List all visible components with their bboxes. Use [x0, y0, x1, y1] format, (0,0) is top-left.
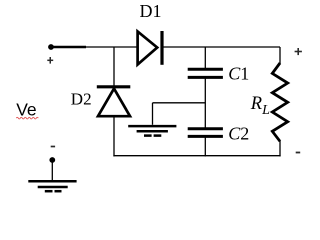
- wire capacitor branch top: [204, 47, 206, 68]
- wire bottom rail: [113, 155, 280, 157]
- wire D2 branch lower: [113, 116, 115, 156]
- capacitor C2 bottom plate: [188, 135, 223, 138]
- ground (input, bottom-left): [28, 181, 76, 191]
- svg-text:Ve: Ve: [16, 100, 36, 120]
- svg-text:D1: D1: [140, 1, 162, 21]
- diode D2 triangle: [98, 89, 130, 117]
- capacitor C1 top plate: [188, 68, 223, 71]
- node input + terminal dot: [48, 44, 54, 50]
- capacitor C1 bottom plate: [188, 76, 223, 79]
- wire top rail left (to D1 anode): [85, 46, 138, 48]
- node input - terminal dot: [49, 157, 55, 163]
- wire top rail right: [164, 46, 281, 48]
- wire right branch top: [279, 47, 281, 64]
- wire capacitor branch bottom: [204, 138, 206, 157]
- svg-text:C1: C1: [228, 63, 249, 83]
- wire capacitor branch middle: [204, 79, 206, 128]
- wire right branch bottom: [279, 141, 281, 156]
- capacitor C2 top plate: [188, 127, 223, 130]
- wire ground tap vertical: [152, 103, 154, 125]
- svg-text:C2: C2: [228, 123, 249, 143]
- wire to input ground: [51, 160, 53, 181]
- ground (middle): [128, 126, 176, 136]
- spellcheck squiggle under Ve: [16, 117, 38, 119]
- resistor RL zigzag: [272, 63, 287, 141]
- label + (output): [295, 48, 302, 55]
- wire thick input lead: [51, 46, 86, 48]
- label - (input): [51, 146, 55, 148]
- svg-text:D2: D2: [71, 89, 92, 108]
- diode D1 cathode bar: [160, 31, 163, 65]
- diode D1 triangle: [138, 32, 158, 65]
- label - (output): [296, 152, 301, 154]
- wire ground tap horizontal: [153, 102, 206, 104]
- label + (input): [47, 57, 53, 64]
- wire D2 branch upper: [113, 47, 115, 86]
- diode D2 cathode bar: [97, 85, 131, 88]
